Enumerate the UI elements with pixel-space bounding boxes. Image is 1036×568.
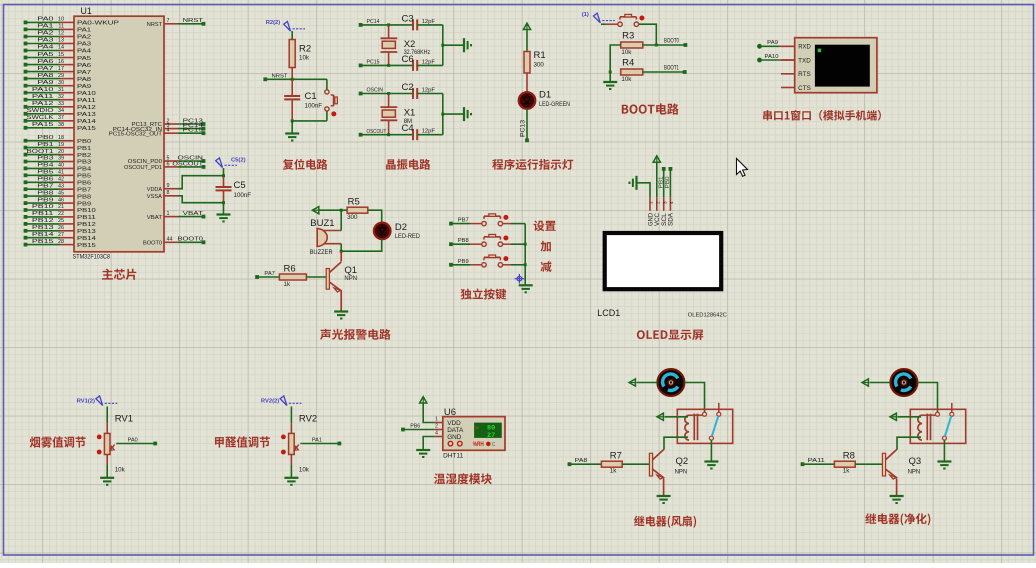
node junction OSCOUT/X1 xyxy=(387,133,390,136)
wire R1 to D1 xyxy=(526,73,528,92)
svg-text:3: 3 xyxy=(662,201,667,204)
svg-text:TXD: TXD xyxy=(798,58,811,64)
net label PB0 vertical xyxy=(665,176,671,188)
svg-text:100nF: 100nF xyxy=(305,103,323,110)
pin PC13_RTC (2) net PC13 xyxy=(132,118,206,128)
power arrow alarm xyxy=(312,207,318,214)
wire GND pin down xyxy=(423,437,435,451)
wire R3 to BOOT0 xyxy=(643,44,686,46)
pin PA14 (37) net SWCLK xyxy=(24,115,96,125)
wire PA7 to R6 xyxy=(257,276,279,278)
svg-text:PB0: PB0 xyxy=(37,135,53,141)
svg-text:33: 33 xyxy=(58,101,64,107)
wire C3 to bus xyxy=(417,24,443,26)
wire C5 node to probe point xyxy=(223,168,225,176)
svg-text:PB6: PB6 xyxy=(37,177,53,183)
fan motor xyxy=(658,369,685,396)
svg-text:PB7: PB7 xyxy=(77,187,91,193)
svg-text:PB5: PB5 xyxy=(37,170,53,176)
svg-text:BUZZER: BUZZER xyxy=(310,250,334,256)
wire Q2 emitter to ground xyxy=(663,479,665,497)
pin PB8 (45) net PB8 xyxy=(24,190,92,200)
svg-text:PB1: PB1 xyxy=(658,176,664,188)
svg-text:100nF: 100nF xyxy=(234,192,252,199)
svg-text:17: 17 xyxy=(58,66,64,72)
pin PA7 (17) net PA7 xyxy=(24,66,92,76)
label jiaquan: 甲醛值调节 xyxy=(215,436,270,447)
svg-text:PB8: PB8 xyxy=(458,238,469,244)
pin PC15-OSC32_OUT (4) net PC15 xyxy=(109,128,206,138)
svg-text:PA8: PA8 xyxy=(575,458,588,464)
svg-text:PA5: PA5 xyxy=(77,56,91,62)
svg-text:VDDA: VDDA xyxy=(147,187,163,193)
svg-text:PA9: PA9 xyxy=(37,80,53,86)
svg-text:RTS: RTS xyxy=(798,72,811,78)
terminal NRST xyxy=(263,73,288,81)
ground OLED (left) xyxy=(630,176,637,190)
wire R3 left rail xyxy=(610,45,621,72)
capacitor C2 12pF xyxy=(402,82,436,99)
svg-text:PB9: PB9 xyxy=(458,259,469,265)
ground relay contact xyxy=(937,462,951,469)
svg-text:RXD: RXD xyxy=(798,45,811,51)
capacitor C6 12pF xyxy=(402,54,436,71)
svg-text:PA15: PA15 xyxy=(77,126,96,132)
svg-text:PB0: PB0 xyxy=(77,139,91,145)
svg-text:PA4: PA4 xyxy=(77,49,91,55)
svg-text:BOOT0: BOOT0 xyxy=(143,241,162,247)
pin PA12 (33) net PA12 xyxy=(24,101,96,111)
pin OSCOUT_PD1 (6) net OSCOUT xyxy=(124,161,205,171)
svg-text:U1: U1 xyxy=(81,6,92,16)
svg-text:26: 26 xyxy=(58,225,64,231)
svg-text:NRST: NRST xyxy=(147,22,163,28)
origin marker keys xyxy=(515,274,525,284)
svg-text:Q3: Q3 xyxy=(909,456,922,467)
svg-text:10: 10 xyxy=(58,17,64,23)
svg-text:PA6: PA6 xyxy=(37,59,53,65)
svg-text:BOOT0: BOOT0 xyxy=(178,237,204,243)
svg-text:VDD: VDD xyxy=(447,420,461,427)
wire C2 to bus xyxy=(417,93,443,95)
power arrow relay coil xyxy=(657,413,663,420)
label jdqjh: 继电器(净化) xyxy=(865,513,930,525)
svg-text:PA15: PA15 xyxy=(32,122,54,128)
pin PB2 (20) net BOOT1 xyxy=(24,149,92,159)
svg-text:38: 38 xyxy=(58,122,64,128)
svg-text:46: 46 xyxy=(58,197,64,203)
wire D2 to bottom node xyxy=(341,239,382,251)
svg-text:41: 41 xyxy=(58,170,64,176)
resistor R5 300 xyxy=(347,197,368,221)
svg-text:PA12: PA12 xyxy=(77,105,96,111)
svg-text:29: 29 xyxy=(58,73,64,79)
wire PA9 to RXD xyxy=(757,40,795,48)
push-button key PB8 xyxy=(449,234,525,246)
potentiometer RV1 10k xyxy=(77,396,157,485)
LED D2 LED-RED xyxy=(374,222,421,240)
pin PB5 (41) net PB5 xyxy=(24,170,92,180)
push-button reset xyxy=(325,90,338,117)
potentiometer RV2 10k xyxy=(261,396,341,485)
pin PB13 (26) net PB13 xyxy=(24,225,96,235)
svg-text:PB0: PB0 xyxy=(665,176,671,188)
svg-text:PC15: PC15 xyxy=(183,128,203,134)
label yanwu: 烟雾值调节 xyxy=(30,436,86,447)
ground BOOT circuit xyxy=(603,82,617,89)
LED D1 LED-GREEN xyxy=(519,90,570,109)
wire power to coil xyxy=(898,416,922,418)
svg-text:PB4: PB4 xyxy=(77,167,91,173)
pin BOOT0 (44) net BOOT0 xyxy=(143,237,205,247)
svg-text:SWDIO: SWDIO xyxy=(27,108,54,114)
svg-text:C1: C1 xyxy=(305,91,317,102)
pin PA0-WKUP (10) net PA0 xyxy=(24,17,120,27)
svg-text:6: 6 xyxy=(167,161,170,167)
svg-text:1: 1 xyxy=(435,417,438,423)
svg-text:R8: R8 xyxy=(843,451,855,462)
pin VBAT (1) net VBAT xyxy=(147,211,206,221)
wire OSCOUT to C4 xyxy=(361,134,413,136)
svg-text:11: 11 xyxy=(58,24,64,30)
svg-text:U6: U6 xyxy=(444,407,456,418)
svg-text:PA10: PA10 xyxy=(77,91,96,97)
svg-text:RV2(2): RV2(2) xyxy=(261,399,279,405)
pin PB4 (40) net PB4 xyxy=(24,163,92,173)
svg-text:34: 34 xyxy=(58,108,64,114)
svg-text:12pF: 12pF xyxy=(422,129,436,135)
label jingzhen: 晶振电路 xyxy=(386,159,430,170)
node junction power/R5/buzzer xyxy=(340,209,343,212)
svg-text:21: 21 xyxy=(58,204,64,210)
svg-text:PA13: PA13 xyxy=(77,112,96,118)
svg-text:PA0: PA0 xyxy=(128,437,138,443)
resistor R4 10k xyxy=(621,58,643,84)
svg-text:PA8: PA8 xyxy=(37,73,53,79)
svg-text:LED-GREEN: LED-GREEN xyxy=(539,102,570,108)
pin TXD stub xyxy=(781,59,795,61)
svg-text:RV2: RV2 xyxy=(299,414,317,425)
svg-text:2: 2 xyxy=(435,424,438,430)
svg-text:PB4: PB4 xyxy=(37,163,53,169)
wire R6 to Q1 base xyxy=(306,276,326,278)
push-button BOOT xyxy=(618,14,645,26)
svg-text:X1: X1 xyxy=(404,108,416,119)
resistor R1 300 xyxy=(524,50,546,73)
svg-text:22: 22 xyxy=(58,211,64,217)
capacitor C5 100nF xyxy=(216,174,252,204)
svg-text:PA14: PA14 xyxy=(77,119,96,125)
resistor R3 10k xyxy=(621,31,643,57)
svg-text:8: 8 xyxy=(167,190,170,196)
wire PC14 to C3 xyxy=(361,24,413,26)
crystal X1 8M xyxy=(381,94,416,135)
svg-text:NPN: NPN xyxy=(344,276,357,282)
svg-text:32: 32 xyxy=(58,94,64,100)
terminal OSCIN xyxy=(359,88,383,96)
svg-text:Q2: Q2 xyxy=(676,456,689,467)
relay RL2 xyxy=(910,403,965,444)
svg-text:PA2: PA2 xyxy=(37,31,53,37)
pin PC14-OSC32_IN (3) net PC14 xyxy=(113,123,206,133)
wire Q1 emitter to ground xyxy=(340,290,342,311)
wire bus to ground X1 xyxy=(443,113,464,115)
wire relay common to ground xyxy=(710,440,712,461)
svg-text:PA9: PA9 xyxy=(77,84,91,90)
probe (1) xyxy=(582,12,615,23)
power arrow relay coil xyxy=(890,413,896,420)
svg-text:Q1: Q1 xyxy=(344,265,357,276)
node junction buzzer/D2/collector xyxy=(340,250,343,253)
virtual terminal body xyxy=(795,38,877,93)
ground below C1 xyxy=(285,121,299,141)
terminal SCL wire xyxy=(662,167,666,197)
terminal OSCOUT xyxy=(359,129,387,137)
node junction bus PB8 xyxy=(524,243,527,246)
svg-text:PA11: PA11 xyxy=(808,458,825,464)
resistor R8 1k xyxy=(834,451,855,475)
pin NRST (7) net NRST xyxy=(147,18,206,28)
svg-text:PA4: PA4 xyxy=(37,45,53,51)
svg-text:40: 40 xyxy=(58,163,64,169)
svg-text:DATA: DATA xyxy=(447,427,464,434)
wire NRST to C1 xyxy=(291,79,293,96)
power arrow motor xyxy=(629,379,635,386)
wire R4 to BOOT1 xyxy=(643,71,685,73)
wire D1 to PC13 terminal xyxy=(526,109,528,141)
ground right of X2 bus xyxy=(464,38,471,52)
svg-text:PA3: PA3 xyxy=(37,38,53,44)
svg-text:PA7: PA7 xyxy=(264,271,275,277)
svg-text:OSCOUT_PD1: OSCOUT_PD1 xyxy=(124,165,162,171)
pin PA6 (16) net PA6 xyxy=(24,59,92,69)
svg-text:(1): (1) xyxy=(582,12,589,18)
svg-text:PB14: PB14 xyxy=(77,236,96,242)
net label PC13 vertical xyxy=(521,119,527,137)
node junction C1/button/ground xyxy=(291,119,294,122)
wire relay common to ground xyxy=(943,440,945,461)
label shezhi: 设置 xyxy=(534,221,556,232)
wire probe to R2 xyxy=(291,31,293,39)
svg-text:PB13: PB13 xyxy=(32,225,54,231)
node junction R4/ground rail xyxy=(609,71,612,74)
wire buzzer bottom to node xyxy=(340,244,342,252)
label duli: 独立按键 xyxy=(461,289,507,300)
wire R8 to Q3 base xyxy=(855,463,882,465)
svg-text:PA0: PA0 xyxy=(37,17,53,23)
svg-text:OLED128642C: OLED128642C xyxy=(688,313,727,319)
svg-text:RV1: RV1 xyxy=(115,414,133,425)
terminal BOOT1 xyxy=(664,64,687,74)
wire R5 to D2 xyxy=(368,210,382,222)
wire rail to ground xyxy=(609,72,611,82)
pin PB9 (46) net PB9 xyxy=(24,197,92,207)
svg-text:PA9: PA9 xyxy=(767,40,778,46)
wire X1 cap bus xyxy=(442,94,444,135)
wire PB6 to DATA xyxy=(403,429,435,431)
svg-text:C5: C5 xyxy=(234,180,246,191)
wire power to motor xyxy=(870,382,891,384)
svg-text:DHT11: DHT11 xyxy=(443,453,463,460)
crystal X2 32.768KHz xyxy=(381,25,431,66)
svg-text:PA1: PA1 xyxy=(312,437,322,443)
wire Q2 collector to coil xyxy=(664,437,688,449)
svg-text:PB9: PB9 xyxy=(77,201,91,207)
svg-text:R3: R3 xyxy=(622,31,634,42)
svg-text:14: 14 xyxy=(58,45,64,51)
pin PA15 (38) net PA15 xyxy=(24,122,96,132)
svg-text:12: 12 xyxy=(58,31,64,37)
ground Q3 xyxy=(890,496,904,503)
ground DHT11 xyxy=(416,450,430,457)
svg-text:31: 31 xyxy=(58,87,64,93)
wire PC15 to C6 xyxy=(361,64,413,66)
svg-text:45: 45 xyxy=(58,190,64,196)
svg-text:PA1: PA1 xyxy=(37,24,53,30)
svg-text:PA8: PA8 xyxy=(77,77,91,83)
svg-text:PB10: PB10 xyxy=(77,208,96,214)
svg-text:C: C xyxy=(492,442,496,448)
terminal PA11 xyxy=(801,458,825,466)
svg-text:NPN: NPN xyxy=(675,470,688,476)
wire C1 to ground node xyxy=(291,99,293,121)
resistor R6 1k xyxy=(279,264,306,288)
svg-text:PC13: PC13 xyxy=(521,119,527,137)
svg-text:R2: R2 xyxy=(299,44,311,55)
svg-text:R2(2): R2(2) xyxy=(266,20,281,26)
node junction button/R3/BOOT0 xyxy=(655,44,658,47)
label jdqfs: 继电器(风扇) xyxy=(634,516,696,528)
svg-text:CTS: CTS xyxy=(798,86,811,92)
svg-text:D1: D1 xyxy=(539,90,551,101)
wire power to VDD xyxy=(423,403,435,423)
wire VSSA to C5 xyxy=(178,196,224,203)
label shengguang: 声光报警电路 xyxy=(320,329,391,340)
svg-text:7: 7 xyxy=(167,18,170,24)
mouse cursor xyxy=(737,159,748,177)
wire PA10 to TXD xyxy=(757,54,795,62)
push-button key PB9 xyxy=(449,255,525,267)
pin PA5 (15) net PA5 xyxy=(24,52,92,62)
svg-text:4: 4 xyxy=(435,431,438,437)
svg-text:PA10: PA10 xyxy=(765,54,779,60)
terminal PA7 xyxy=(255,271,275,279)
label wenshidu: 温湿度模块 xyxy=(434,473,492,484)
svg-text:VSSA: VSSA xyxy=(147,194,163,200)
resistor R2 10k xyxy=(289,40,311,68)
relay RL1 xyxy=(677,403,732,444)
pin RXD stub xyxy=(781,45,795,47)
node junction bus PB9 xyxy=(524,263,527,266)
svg-text:SWCLK: SWCLK xyxy=(27,115,55,121)
svg-text:1k: 1k xyxy=(610,468,617,475)
svg-text:PB6: PB6 xyxy=(410,423,420,429)
svg-text:PA5: PA5 xyxy=(37,52,53,58)
net label PB1 vertical xyxy=(658,176,664,188)
transistor Q2 NPN xyxy=(649,449,688,479)
pin PA3 (13) net PA3 xyxy=(24,38,92,48)
pin PB11 (22) net PB11 xyxy=(24,211,96,221)
svg-text:C5(2): C5(2) xyxy=(231,158,246,164)
svg-text:12pF: 12pF xyxy=(422,88,436,94)
svg-text:R7: R7 xyxy=(610,451,622,462)
pin PB6 (42) net PB6 xyxy=(24,177,92,187)
svg-text:27: 27 xyxy=(58,232,64,238)
node junction PC15/X2 xyxy=(387,64,390,67)
svg-text:>: > xyxy=(476,426,479,432)
svg-text:LCD1: LCD1 xyxy=(597,308,620,318)
svg-text:C3: C3 xyxy=(402,14,414,25)
svg-text:C4: C4 xyxy=(402,123,414,134)
wire Q3 emitter to ground xyxy=(896,479,898,497)
capacitor C3 12pF xyxy=(402,14,436,31)
svg-text:37: 37 xyxy=(58,115,64,121)
svg-text:4: 4 xyxy=(669,201,674,204)
resistor R7 1k xyxy=(601,451,622,475)
pin PB14 (27) net PB14 xyxy=(24,232,96,242)
svg-text:10k: 10k xyxy=(115,466,126,473)
svg-text:9: 9 xyxy=(167,183,170,189)
label jian: 减 xyxy=(541,261,552,272)
svg-text:PB1: PB1 xyxy=(37,142,53,148)
svg-text:30: 30 xyxy=(58,80,64,86)
wire power to motor xyxy=(637,382,658,384)
terminal PC15 xyxy=(359,60,380,68)
svg-text:10k: 10k xyxy=(621,76,632,83)
wire C5 to ground xyxy=(223,203,225,215)
svg-text:PB10: PB10 xyxy=(32,204,54,210)
wire probe to button xyxy=(601,23,606,25)
svg-text:1k: 1k xyxy=(843,468,850,475)
svg-text:2: 2 xyxy=(656,201,661,204)
pin PB3 (39) net PB3 xyxy=(24,156,92,166)
svg-text:PA2: PA2 xyxy=(77,35,91,41)
pin PA10 (31) net PA10 xyxy=(24,87,96,97)
wire OSCIN to C2 xyxy=(361,93,413,95)
svg-text:PB15: PB15 xyxy=(32,239,54,245)
svg-text:C2: C2 xyxy=(402,82,414,93)
terminal PC14 xyxy=(359,19,380,27)
svg-text:PB9: PB9 xyxy=(37,197,53,203)
svg-text:1k: 1k xyxy=(284,281,291,288)
svg-text:R6: R6 xyxy=(284,264,296,275)
power arrow OLED xyxy=(653,156,660,162)
svg-text:PB12: PB12 xyxy=(77,222,96,228)
pin PA1 (11) net PA1 xyxy=(24,24,92,34)
label chengxu: 程序运行指示灯 xyxy=(492,159,573,170)
svg-text:D2: D2 xyxy=(395,222,407,233)
svg-text:GND: GND xyxy=(447,434,462,441)
svg-text:10k: 10k xyxy=(299,55,310,62)
svg-text:PB11: PB11 xyxy=(77,215,96,221)
wire bottom rail to button xyxy=(292,120,327,122)
wire Q1 collector xyxy=(340,251,342,261)
svg-text:PA11: PA11 xyxy=(32,94,54,100)
svg-text:PB5: PB5 xyxy=(77,174,91,180)
svg-text:PB2: PB2 xyxy=(77,153,91,159)
pin PB15 (28) net PB15 xyxy=(24,239,96,249)
wire GND pin to ground xyxy=(637,183,650,197)
label bootdl: BOOT电路 xyxy=(622,103,679,114)
svg-text:PB8: PB8 xyxy=(37,190,53,196)
wire keys bus xyxy=(524,224,526,286)
svg-text:PB13: PB13 xyxy=(77,229,96,235)
buzzer BUZ1 xyxy=(310,218,342,256)
label jia: 加 xyxy=(541,241,551,252)
svg-text:PA10: PA10 xyxy=(32,87,54,93)
wire buzzer top to rail xyxy=(340,210,342,230)
svg-text:25: 25 xyxy=(58,218,64,224)
